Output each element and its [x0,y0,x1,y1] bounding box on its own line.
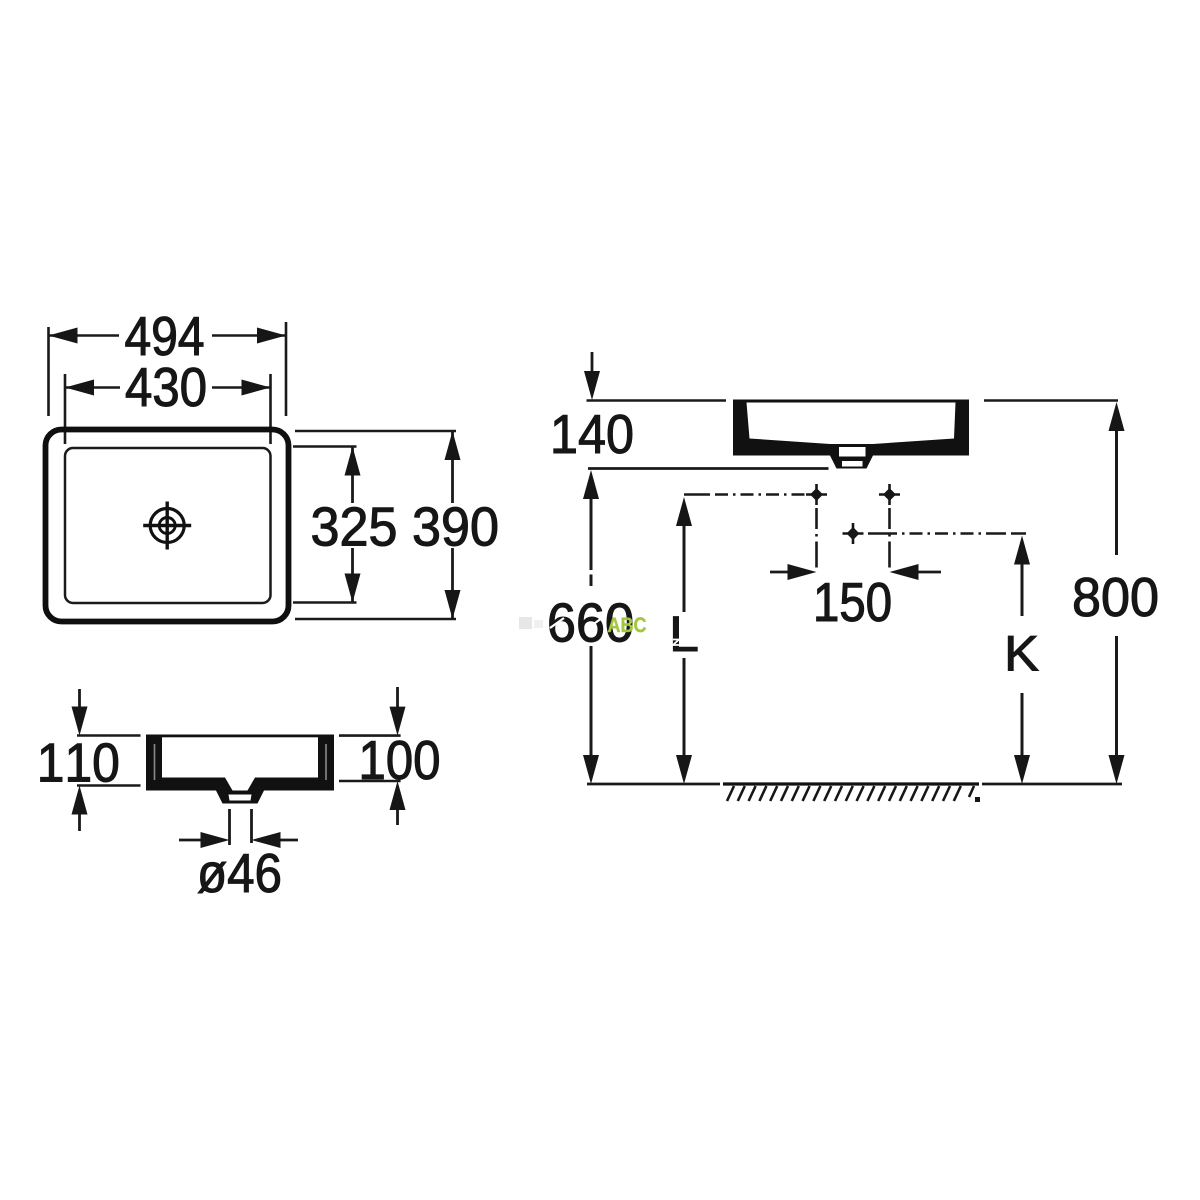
wall highlight right [325,744,327,780]
dimension o46 left arrow [179,839,201,842]
watermark white z on L stem [673,640,679,646]
drain body (front) [216,791,264,804]
dimension line 325 [351,447,354,603]
basin body (side) [733,400,969,456]
arrow 110 bottom [78,813,81,831]
watermark ABC [608,617,646,632]
hatch end dot [975,797,980,802]
label 494 [126,317,204,356]
arrowhead 325 top [345,447,361,476]
dimension o46 right arrow [280,839,298,842]
label o46 [198,854,280,893]
tailpiece right line [250,809,253,843]
dimension line L [683,525,686,612]
watermark gray blotch left of 660 [519,617,532,629]
dimension line 800 [1115,430,1118,555]
drain gap (front) [229,795,252,801]
label 430 [126,368,205,407]
drain dip (front) [225,778,255,791]
extension line 494 right [285,322,288,416]
faucet hole marker right [879,484,900,505]
dash-dot vertical left hole [815,508,818,572]
halo 325 390 [306,503,504,548]
arrow 100 top [396,687,399,708]
watermark white slashes over 660 [550,618,602,628]
dimension 150 right arrow [917,571,941,574]
extension line 325 bottom [293,601,357,604]
drain body (side) [830,456,873,469]
dimension 150 left arrow [770,571,789,574]
tailpiece left line [228,809,231,845]
label 660 [550,603,632,642]
label L [673,617,697,651]
dimension line K [1021,563,1024,616]
dimension line 494 [49,334,287,337]
arrowhead 390 bottom [445,590,461,619]
halo 430 [120,364,212,409]
dash-dot faucet line corner [684,493,810,496]
floor line right [982,783,1122,786]
drain crosshair [143,502,191,550]
label 390 [414,507,497,546]
extension line 100 top [339,734,401,737]
label 150 [817,583,891,622]
label 110 [41,743,118,782]
label 800 [1074,578,1157,617]
extension line 110 top [77,734,141,737]
arrowhead 430 left [65,380,94,396]
dimension line 660 [590,498,593,570]
extension line 325 top [293,445,357,448]
dimension line 390 [451,431,454,619]
arrowhead 390 top [445,431,461,460]
basin interior (front) [162,737,318,777]
basin bottom level line [588,467,829,470]
arrowhead 325 bottom [345,574,361,603]
extension line 494 left [47,327,50,416]
dimension line 430 [65,386,271,389]
faucet hole marker center [843,523,864,544]
dash-dot K level line [868,532,1026,535]
extension line 390 top [295,430,456,433]
halo 494 [119,313,212,358]
arrowhead 494 left [49,328,78,344]
faucet hole marker left [806,484,827,505]
extension line 430 left [64,374,67,444]
arrow 140 top [591,352,594,373]
label 140 [554,415,632,454]
arrowhead 430 right [242,380,271,396]
basin outer rim (plan) [46,430,289,622]
arrowhead 494 right [257,328,286,344]
dash-dot vertical right hole [888,508,891,572]
extension line 390 bottom [295,618,456,621]
label 100 [362,741,438,780]
drain gap (side) [842,461,863,467]
rim level line left [587,399,727,402]
floor line left [587,783,720,786]
basin body (front) [146,735,334,791]
label K [1008,636,1038,670]
extension line 430 right [269,374,272,444]
wall highlight left [154,744,156,780]
extension line 110 bottom [77,784,141,787]
extension line 100 bottom [339,780,401,783]
floor hatched strip [723,784,980,802]
arrow 110 top [78,689,81,708]
basin inner bowl (plan) [65,448,271,603]
basin interior (side) [747,403,956,445]
arrow 100 bottom [396,808,399,825]
drain inner box (side) [839,447,866,457]
rim level line right [984,399,1118,402]
label 325 [313,507,396,546]
